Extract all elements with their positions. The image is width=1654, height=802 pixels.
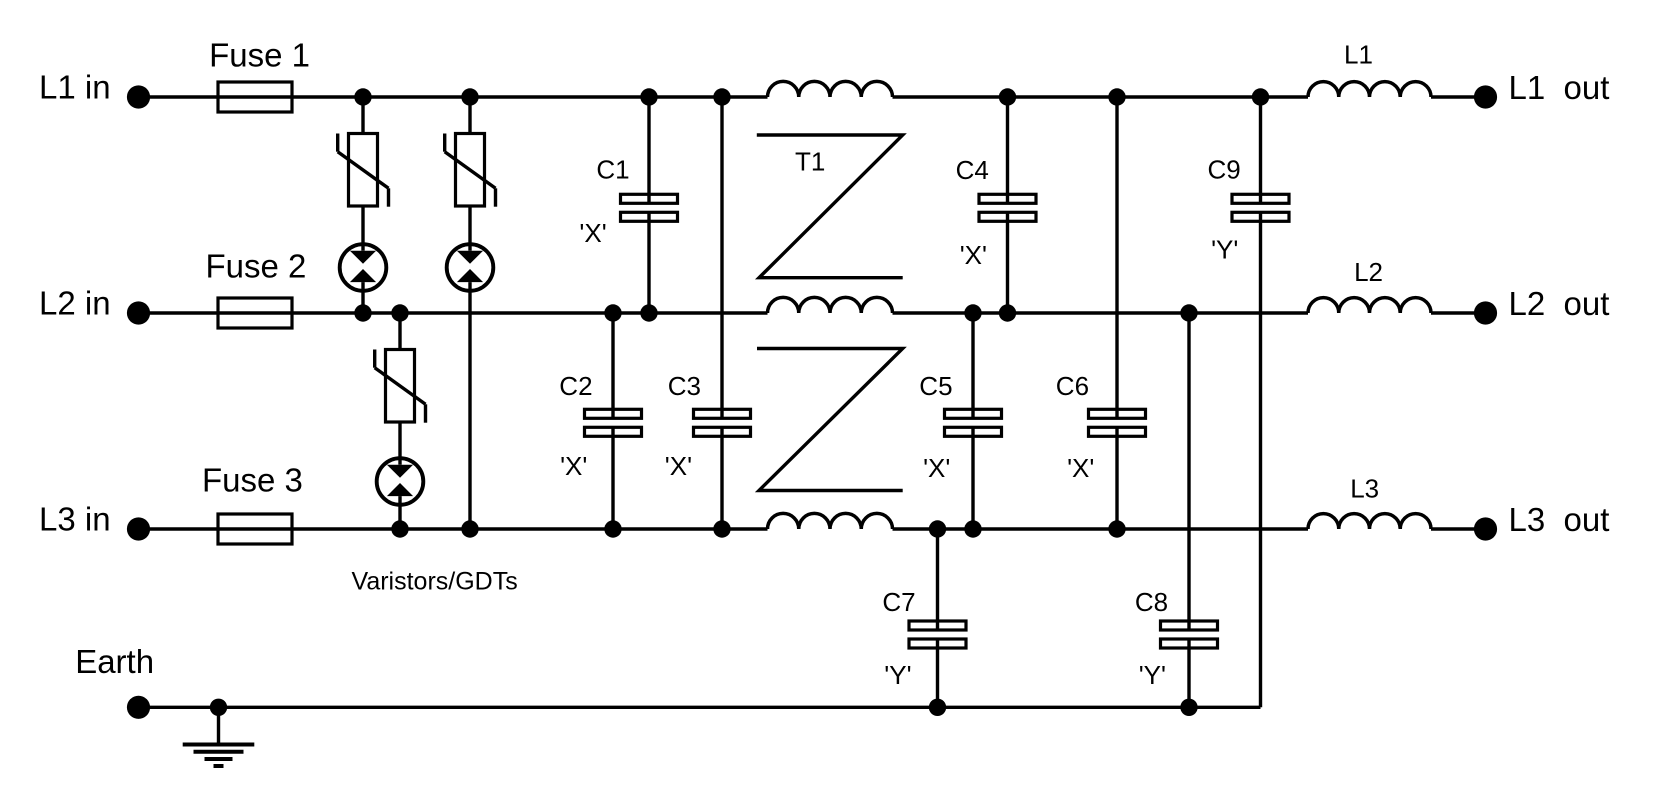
svg-text:'Y': 'Y' (1139, 660, 1166, 690)
svg-text:Fuse 3: Fuse 3 (202, 462, 303, 499)
svg-text:'Y': 'Y' (884, 660, 911, 690)
svg-text:'X': 'X' (960, 240, 987, 270)
svg-text:L1: L1 (1344, 39, 1373, 69)
svg-text:C1: C1 (596, 154, 629, 184)
svg-text:'X': 'X' (923, 453, 950, 483)
svg-text:L2 out: L2 out (1509, 285, 1610, 322)
svg-text:Earth: Earth (75, 643, 154, 680)
svg-text:C2: C2 (559, 371, 592, 401)
svg-text:T1: T1 (795, 147, 825, 177)
svg-text:L3 in: L3 in (39, 501, 111, 538)
svg-text:'X': 'X' (1067, 453, 1094, 483)
svg-text:Fuse 1: Fuse 1 (209, 36, 310, 73)
svg-text:C5: C5 (919, 371, 952, 401)
svg-text:L3 out: L3 out (1509, 501, 1610, 538)
svg-text:C8: C8 (1135, 587, 1168, 617)
svg-text:'X': 'X' (579, 218, 606, 248)
svg-text:L2: L2 (1354, 257, 1383, 287)
svg-text:L3: L3 (1350, 474, 1379, 504)
svg-text:C7: C7 (882, 587, 915, 617)
svg-text:C9: C9 (1208, 154, 1241, 184)
svg-text:L1 in: L1 in (39, 69, 111, 106)
svg-text:Varistors/GDTs: Varistors/GDTs (352, 568, 518, 596)
svg-text:C6: C6 (1056, 371, 1089, 401)
svg-text:L1 out: L1 out (1509, 69, 1610, 106)
svg-text:C4: C4 (956, 155, 989, 185)
svg-text:C3: C3 (668, 371, 701, 401)
svg-text:'X': 'X' (560, 451, 587, 481)
svg-text:'X': 'X' (665, 451, 692, 481)
svg-text:Fuse 2: Fuse 2 (206, 247, 307, 284)
svg-text:'Y': 'Y' (1211, 235, 1238, 265)
svg-text:L2 in: L2 in (39, 285, 111, 322)
